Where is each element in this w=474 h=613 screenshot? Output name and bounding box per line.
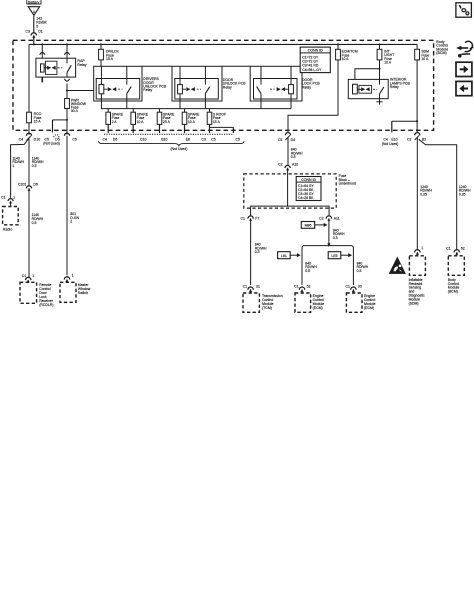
module Body Control Module (BCM) lower (448, 256, 465, 294)
connector C1 pin 1 at Radio (1, 195, 15, 206)
svg-text:C201: C201 (18, 182, 26, 186)
module Inflatable Restraint Sensing and Diagnostic Module (SDM) (409, 256, 426, 305)
svg-text:10 A: 10 A (421, 57, 429, 61)
wire RAP output to door-relay PCB (66, 89, 94, 91)
wire INT LIGHT fuse to interior lamps relay (355, 60, 381, 80)
svg-text:52: 52 (307, 285, 311, 289)
svg-text:C5: C5 (278, 138, 283, 142)
RPO code box LE5 (328, 252, 352, 259)
CONN ID table (underhood fuse block) (296, 177, 321, 201)
Body Control Module (BCM) dashed outline (13, 40, 434, 130)
relay DOOR UNLOCK PCB (inner) (175, 66, 219, 99)
fuse SPARE 10 A (182, 109, 200, 133)
connector C1 pin 52 at ECM 1 (294, 285, 310, 293)
svg-text:1: 1 (32, 274, 34, 278)
battery symbol (fused battery feed) (27, 0, 41, 15)
fuse SPARE 25 A (157, 109, 175, 133)
svg-text:(SDM): (SDM) (409, 301, 419, 305)
svg-text:(BCM): (BCM) (448, 290, 458, 294)
connector C3/D1 at BCM (25, 30, 42, 45)
fuse INT LIGHT 10 A (377, 49, 395, 64)
wire 1240 RD/WH 0.35 to SDM (417, 138, 432, 250)
fuse DR/LCK 15 A (99, 49, 120, 61)
svg-text:A10: A10 (292, 163, 298, 167)
relay RAP (box, coil, contact) (36, 58, 76, 77)
wire 1240 RD/WH 0.35 to BCM (right leg) (419, 139, 471, 249)
fuse SDM 10 A (415, 49, 429, 61)
svg-text:15 A: 15 A (213, 120, 221, 124)
wire SDM fuse to C3/B3 (416, 60, 418, 132)
svg-text:10 A: 10 A (342, 57, 350, 61)
viewer button back (boxed left arrow) (456, 81, 472, 95)
svg-text:0.5: 0.5 (32, 164, 37, 168)
svg-text:C2: C2 (319, 217, 324, 221)
wire 1140 RD/WH 1 to Radio (diagonal + vertical) (11, 138, 29, 198)
splice tee of 840 circuit (302, 243, 353, 250)
connector C1 pin 31 at TCM (243, 285, 260, 293)
svg-text:Radio: Radio (3, 227, 12, 231)
wire 840 RD/WH 0.5 from A11 to splice tee (329, 221, 345, 244)
relay DRIVERS DOOR UNLOCK PCB (inner) (96, 66, 140, 99)
svg-text:A11: A11 (334, 217, 340, 221)
svg-text:L61: L61 (281, 254, 287, 258)
module Radio (dashed box) (3, 207, 19, 232)
module Remote Control Door Lock Receiver (RCDLR) (20, 282, 54, 307)
svg-text:25 A: 25 A (163, 120, 171, 124)
CONN ID table (BCM connectors) (300, 47, 330, 73)
connector pin 1 at SDM (415, 246, 424, 256)
svg-text:C5: C5 (72, 137, 77, 141)
svg-text:C3: C3 (25, 30, 30, 34)
svg-text:(Not Used): (Not Used) (43, 142, 60, 146)
fuse PWR WINDOW 30 A (65, 98, 87, 113)
svg-text:C3: C3 (201, 137, 206, 141)
connector C201/D6 (18, 182, 38, 190)
wire 1140 RD/WH 0.5 to C201 (29, 138, 44, 186)
interior lamps relay output stub (376, 99, 382, 105)
dotted not-used bus under spare fuses (104, 133, 233, 135)
wire RCO fuse to connector C4 (28, 123, 30, 135)
wire drop to SDM fuse (416, 44, 418, 49)
svg-text:C5: C5 (211, 137, 216, 141)
RPO code box M86 (301, 222, 327, 229)
svg-text:C1: C1 (1, 195, 6, 199)
svg-text:C10: C10 (140, 137, 146, 141)
svg-text:C4=28 BK: C4=28 BK (298, 196, 314, 200)
svg-text:D10: D10 (34, 137, 41, 141)
wire 142 RD/BK from battery (34, 15, 48, 33)
module Engine Control Module (ECM) #1 (295, 293, 324, 312)
svg-text:10 A: 10 A (137, 120, 145, 124)
wire drop to ECM/TCM fuse (337, 44, 339, 49)
svg-text:C5: C5 (236, 137, 241, 141)
wire main battery feed bus inside BCM (29, 43, 417, 45)
connector C1 pin 30 at ECM 2 (346, 285, 362, 293)
fuse ECM/TCM 10 A (336, 49, 358, 61)
connector C4/D10 (19, 133, 41, 141)
airbag caution symbol (SIR warning triangle) (389, 257, 405, 273)
svg-text:0.5: 0.5 (333, 236, 338, 240)
svg-text:D6: D6 (113, 137, 118, 141)
wire bus inside underhood fuse block (251, 206, 330, 216)
brace (Not Used) under connector row (98, 141, 244, 151)
svg-text:10 A: 10 A (384, 61, 392, 65)
wire drop to RCO fuse (28, 44, 30, 112)
wire drop to INT LIGHT fuse (379, 44, 381, 49)
wire 840 RD/WH 0.35 to ECM (LE5) (353, 250, 368, 285)
svg-text:(RCDLR): (RCDLR) (39, 303, 53, 307)
svg-text:1: 1 (72, 274, 74, 278)
svg-text:B3: B3 (422, 137, 426, 141)
relay DOOR LOCK PCB (outer box) (250, 66, 302, 101)
connector C5/D5 (Not Used) dotted stub (43, 135, 60, 146)
wire drop to DR/LCK fuse (100, 44, 102, 49)
svg-text:(ECM): (ECM) (364, 306, 374, 310)
svg-text:(Not Used): (Not Used) (382, 142, 399, 146)
RAP relay pins (connector chevrons) (40, 44, 70, 58)
svg-text:0.35: 0.35 (459, 193, 466, 197)
svg-text:(ECM): (ECM) (313, 306, 323, 310)
connector C1 pin 62 at lower BCM (446, 246, 465, 256)
svg-text:(TCM): (TCM) (262, 306, 272, 310)
fuse SPARE 2 A (106, 109, 124, 133)
svg-text:C1: C1 (22, 274, 27, 278)
svg-text:Relay: Relay (77, 63, 86, 67)
svg-text:C2: C2 (278, 163, 283, 167)
wire DR/LCK fuse to relay PCB (100, 60, 102, 66)
connector C2/A10 (278, 163, 298, 207)
svg-text:C4=56 L-GY: C4=56 L-GY (302, 68, 322, 72)
wire relay outputs to spare-fuse bus (101, 99, 291, 109)
svg-text:0.5: 0.5 (305, 269, 310, 273)
svg-text:D4: D4 (291, 138, 296, 142)
viewer toolbar button (top right small square icon) (456, 3, 472, 17)
svg-text:C3: C3 (407, 137, 412, 141)
module Engine Control Module (ECM) #2 (346, 293, 375, 312)
fuse SPARE 10 A (131, 109, 149, 133)
svg-text:15 A: 15 A (34, 120, 42, 124)
svg-text:E8: E8 (186, 137, 190, 141)
svg-text:C1: C1 (241, 217, 246, 221)
svg-text:0.5: 0.5 (255, 250, 260, 254)
svg-text:B10: B10 (161, 137, 167, 141)
svg-text:C1: C1 (346, 285, 351, 289)
wire PWR WINDOW fuse down to C5 (66, 109, 68, 135)
connector pin 1 at Master Window Switch (64, 274, 73, 283)
junction dots on feed bus (33, 43, 381, 45)
svg-text:CONN ID: CONN ID (301, 178, 316, 182)
relay DOOR LOCK PCB (inner, mirrored) (254, 66, 298, 99)
wire ECM/TCM fuse to C5/D4 (288, 60, 338, 132)
wire spare-fuse bus under relay PCB (101, 108, 291, 110)
svg-text:C4: C4 (383, 137, 388, 141)
connector C1 pin 1 at RCDLR (22, 274, 35, 282)
svg-text:E10: E10 (391, 137, 397, 141)
svg-text:Switch: Switch (78, 291, 88, 295)
svg-text:C1: C1 (294, 285, 299, 289)
svg-text:30 A: 30 A (71, 109, 79, 113)
relay INTERIOR LAMPS PCB (348, 79, 388, 98)
svg-text:0.5: 0.5 (32, 221, 37, 225)
svg-text:Relay: Relay (143, 88, 152, 92)
svg-text:10 A: 10 A (188, 120, 196, 124)
svg-text:62: 62 (461, 246, 465, 250)
wire 801 D-GN 2 (67, 136, 80, 276)
wire 840 RD/WH 0.5 to underhood fuse block (288, 138, 303, 165)
module Transmission Control Module (TCM) (243, 293, 283, 312)
svg-text:Battery: Battery (28, 0, 39, 4)
module Master Window Switch (60, 282, 91, 302)
svg-text:30: 30 (358, 285, 362, 289)
RAP relay output pin chevron (64, 79, 69, 99)
svg-text:5: 5 (36, 24, 38, 28)
connector C1/F7 (241, 216, 260, 221)
svg-text:0.5: 0.5 (291, 155, 296, 159)
svg-text:2: 2 (70, 220, 72, 224)
svg-text:C4: C4 (103, 137, 108, 141)
svg-text:C4: C4 (19, 137, 24, 141)
connector C5 to Master Window Switch (64, 133, 77, 141)
svg-text:31: 31 (256, 285, 260, 289)
wire 1140 RD/WH 0.5 to RCDLR (29, 190, 44, 278)
fuse RCO 15 A (27, 112, 42, 123)
RPO code box L61 (278, 252, 301, 259)
svg-text:1: 1 (421, 246, 423, 250)
wire S ROOF tee to extra stub (210, 127, 234, 133)
connector C4/E10 (Not Used) (382, 137, 399, 145)
svg-text:Relay: Relay (223, 85, 232, 89)
module Fuse Block - Underhood (dashed) (244, 174, 356, 208)
svg-text:Relay: Relay (390, 85, 399, 89)
connector C5/D4 (278, 133, 295, 142)
connector C2/A11 (319, 216, 340, 221)
viewer icon splice/navigation glyph (clipped at edge) (457, 41, 474, 57)
RAP relay coil output stub (41, 77, 43, 82)
wire 840 RD/WH 0.5 to TCM (251, 221, 267, 285)
wire PCB top link 1 (142, 65, 172, 67)
relay DRIVERS DOOR UNLOCK PCB (outer box) (94, 66, 142, 101)
svg-text:C1: C1 (243, 285, 248, 289)
svg-text:(BCM): (BCM) (436, 51, 446, 55)
relay DOOR UNLOCK PCB (outer box) (172, 66, 222, 101)
wire PCB top link 2 (222, 65, 250, 67)
svg-text:C1: C1 (446, 246, 451, 250)
wire 840 RD/WH 0.35 to ECM (L61) (302, 250, 317, 285)
svg-text:0.5: 0.5 (357, 269, 362, 273)
svg-text:Underhood: Underhood (339, 182, 356, 186)
svg-text:D1: D1 (38, 30, 43, 34)
svg-text:Relay: Relay (302, 85, 311, 89)
svg-text:M86: M86 (305, 224, 312, 228)
viewer button next (boxed right arrow) (456, 62, 472, 76)
wire tee to not-used C4/E10 stub (392, 120, 418, 132)
svg-text:F7: F7 (255, 217, 259, 221)
wire tee to not-used C5/D5 stub (53, 119, 69, 133)
fuse S ROOF 15 A (207, 109, 226, 133)
svg-text:15 A: 15 A (106, 57, 114, 61)
connector C3/B3 (407, 133, 426, 142)
svg-text:1: 1 (13, 195, 15, 199)
svg-text:(Not Used): (Not Used) (170, 147, 187, 151)
svg-text:D6: D6 (33, 182, 38, 186)
svg-text:CONN ID: CONN ID (308, 49, 324, 53)
labels bottom connector row (spare fuses) (103, 137, 241, 141)
svg-text:LE5: LE5 (331, 254, 337, 258)
svg-text:0.35: 0.35 (420, 193, 427, 197)
svg-text:2 A: 2 A (112, 120, 118, 124)
svg-text:1: 1 (12, 164, 14, 168)
